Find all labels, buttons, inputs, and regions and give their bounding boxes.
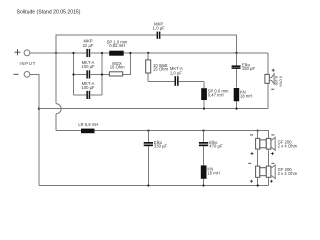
resistor MOX 10 Ohm (branch 1) bbox=[109, 61, 125, 76]
node: Elko330 lands on bottom rail bbox=[147, 184, 149, 186]
capacitor MKP 1,0 uF (bypass) bbox=[153, 21, 165, 38]
capacitor MKT-A 1,0 uF (mid chain) bbox=[170, 66, 183, 86]
node: cap bank left on rail bbox=[72, 52, 74, 54]
node: bypass lands on rail bbox=[235, 52, 237, 54]
node: branch centre junction bbox=[101, 73, 103, 75]
capacitor Elko 330 uF branch bbox=[144, 131, 168, 186]
inductor KN 18 mH bbox=[234, 88, 253, 109]
capacitor MKP 22 uF (on rail) bbox=[83, 39, 94, 58]
inductor KN 15 mH bbox=[201, 165, 220, 185]
inductor SP 0.6 mm 0,47 mH (vertical) bbox=[201, 81, 229, 108]
node: MOX branch right on rail bbox=[129, 52, 131, 54]
capacitor Elko 150 uF (vertical branch) bbox=[232, 53, 256, 88]
svg-text:1,0 µF: 1,0 µF bbox=[153, 26, 165, 31]
svg-text:1,0 µF: 1,0 µF bbox=[170, 71, 182, 76]
speaker B 200 8 Ohm bbox=[265, 69, 283, 90]
svg-text:18 mH: 18 mH bbox=[240, 93, 252, 98]
node T on rail bbox=[147, 52, 149, 54]
svg-text:B 200: B 200 bbox=[274, 76, 278, 85]
wire: to both voice coils of GF200 #1 bbox=[258, 131, 269, 139]
wire: bottom rail bbox=[39, 185, 269, 187]
capacitor MKT-A 100 uF (branch 1) bbox=[81, 60, 95, 78]
svg-text:INPUT: INPUT bbox=[19, 61, 36, 66]
capacitor Elko 470 uF branch bbox=[199, 131, 223, 166]
svg-text:LR 6,8 mH: LR 6,8 mH bbox=[78, 122, 98, 127]
speaker GF 200 #2 (2 x 4 Ohm) bbox=[248, 163, 297, 182]
wire: bypass riser and bypass top wire to node 236.5 bbox=[56, 35, 237, 53]
capacitor bank left vertical bbox=[73, 53, 75, 95]
wire: top rail from + terminal to tweeter drop bbox=[30, 52, 268, 54]
wire B (woofer feed) bbox=[56, 130, 258, 132]
svg-text:8 Ohm: 8 Ohm bbox=[279, 76, 283, 87]
capacitor MKT-A 100 uF (branch 2) bbox=[81, 81, 95, 99]
inductor LR 6,8 mH (woofer series) bbox=[78, 122, 98, 133]
resistor 10 Watt 15 Ohm (vertical) bbox=[146, 53, 169, 81]
node: KN18 lands on wire A bbox=[235, 108, 237, 110]
wire: minus terminal to down rail bbox=[30, 74, 39, 185]
terminal - (minus sign) bbox=[14, 73, 19, 75]
wire: mid chain horizontal bbox=[148, 80, 204, 82]
wire A (upper return rail) bbox=[39, 108, 268, 110]
branch wire y=95 (second MKT-A cap) bbox=[74, 94, 103, 96]
svg-text:100 µF: 100 µF bbox=[81, 85, 95, 90]
node: cap bank right on rail bbox=[101, 52, 103, 54]
node: minus rail joins wire A bbox=[38, 108, 40, 110]
svg-text:10 Ohm: 10 Ohm bbox=[110, 64, 125, 69]
node: woofer return on bottom rail bbox=[257, 184, 259, 186]
svg-text:330 µF: 330 µF bbox=[154, 144, 168, 149]
terminal - circle bbox=[24, 72, 30, 78]
node: SP0.6 lands on wire A bbox=[203, 108, 205, 110]
svg-text:0,82 mH: 0,82 mH bbox=[109, 43, 125, 48]
node: KN15 lands on bottom rail bbox=[202, 184, 204, 186]
inductor SP 1.0 mm 0,82 mH (on rail) bbox=[107, 40, 128, 56]
speaker GF 200 #1 (2 x 4 Ohm) bbox=[250, 135, 298, 155]
wire: series link between GF200 #1 and #2 bbox=[258, 149, 269, 166]
svg-text:2 x 4 Ohm: 2 x 4 Ohm bbox=[278, 171, 298, 176]
svg-text:470 µF: 470 µF bbox=[209, 144, 223, 149]
node: Elko330 branch on wire B bbox=[147, 130, 149, 132]
svg-text:100 µF: 100 µF bbox=[81, 64, 95, 69]
wire: node X down to woofer wire B (two segments around hop) bbox=[55, 53, 57, 131]
terminal + (plus sign) bbox=[15, 49, 21, 55]
node: woofer stack top bbox=[257, 130, 259, 132]
wire: branch y=74.5 (MKT-A cap + MOX resistor) bbox=[74, 53, 131, 75]
terminal + circle bbox=[24, 50, 30, 56]
svg-text:0,47 mH: 0,47 mH bbox=[208, 93, 224, 98]
node: Elko470 branch on wire B bbox=[202, 130, 204, 132]
svg-text:2 x 4 Ohm: 2 x 4 Ohm bbox=[278, 144, 298, 149]
svg-text:22 µF: 22 µF bbox=[83, 43, 94, 48]
svg-text:15 mH: 15 mH bbox=[207, 170, 219, 175]
svg-text:150 µF: 150 µF bbox=[242, 66, 256, 71]
wire hop (crossover bump over wire A) bbox=[56, 104, 61, 114]
wire: GF200 #2 to bottom rail bbox=[258, 177, 269, 185]
speaker B200 drop wire bbox=[267, 53, 269, 109]
capacitor bank right vertical bbox=[101, 53, 103, 95]
node: branch left junction bbox=[72, 73, 74, 75]
svg-text:15 Ohm: 15 Ohm bbox=[153, 67, 168, 72]
svg-text:Solitude (Stand 20.05.2015): Solitude (Stand 20.05.2015) bbox=[17, 10, 81, 16]
node X at input bbox=[55, 52, 57, 54]
